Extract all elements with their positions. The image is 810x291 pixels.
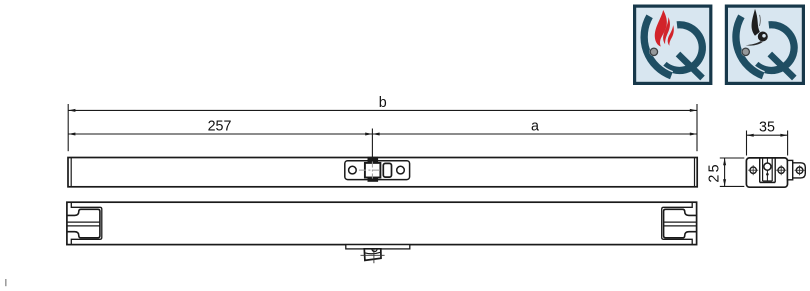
cap plug outline <box>68 209 100 238</box>
icon2 smoke tail <box>746 41 763 46</box>
slider block bottom tab <box>368 177 379 182</box>
dimension line 257 / a <box>68 133 697 135</box>
icon2 Q tail <box>770 54 795 78</box>
icon2 Q ring <box>756 25 794 71</box>
icon1 Q tail <box>678 54 703 78</box>
side tab <box>788 160 793 179</box>
screw hole left <box>750 167 756 173</box>
left end cap line <box>70 158 72 186</box>
svg-text:257: 257 <box>208 119 232 135</box>
pivot center lines <box>361 254 385 256</box>
channel bottom <box>763 180 773 182</box>
dimension line 35 <box>747 134 788 136</box>
plate hole right <box>397 166 405 174</box>
svg-text:a: a <box>531 118 539 134</box>
rail body <box>68 158 697 187</box>
icon1 C arc <box>644 16 671 76</box>
icon1 flame <box>655 10 667 47</box>
ext line 35 right <box>787 131 789 156</box>
icon2 C arc <box>736 16 763 76</box>
pivot notch arc <box>372 249 377 252</box>
center line horizontal <box>359 169 387 171</box>
small rounded rect on plate <box>383 163 391 177</box>
channel outer walls <box>759 158 761 183</box>
rail outline <box>67 202 697 244</box>
icon2 smoke stalk <box>752 9 760 36</box>
dimension line b <box>68 109 697 111</box>
channel inner walls <box>762 158 764 181</box>
right cap (mirror) <box>662 203 696 244</box>
dimension line 25 <box>724 158 726 186</box>
stray gray tick bottom left <box>5 279 7 286</box>
slider block top tab <box>368 157 379 164</box>
icon2 dot <box>741 47 750 56</box>
right end cap line <box>694 158 696 186</box>
icon2 C arc casing <box>736 16 763 76</box>
side clip <box>793 163 806 178</box>
icon2 frame <box>726 6 803 83</box>
icon2 smoke wisp line <box>759 15 762 26</box>
plate hole left <box>349 166 357 174</box>
slider square <box>365 163 381 178</box>
svg-text:25: 25 <box>707 162 723 182</box>
extension line right <box>696 104 698 151</box>
slider plate (bottom view) <box>346 245 410 249</box>
icon1 dot <box>649 47 658 56</box>
cap middle lines <box>68 221 100 223</box>
slider plate <box>345 161 410 180</box>
icon1 frame <box>635 6 711 83</box>
extension/leader line center (to slider square) <box>371 129 373 164</box>
svg-text:b: b <box>379 95 387 111</box>
icon1 Q ring <box>664 25 702 71</box>
icon1 C arc casing <box>644 16 671 76</box>
ext line 25 bottom <box>720 185 745 187</box>
ext line 25 top <box>720 157 745 159</box>
clip hole <box>796 167 803 174</box>
ext line 35 left <box>746 131 748 156</box>
pivot center line <box>766 158 768 163</box>
center line vertical <box>371 162 373 179</box>
side view body <box>746 158 787 187</box>
left cap <box>68 203 102 244</box>
screw hole right <box>778 167 784 173</box>
cap step outline <box>71 203 102 244</box>
extension line left <box>67 104 69 151</box>
svg-text:35: 35 <box>759 120 775 136</box>
pivot hole <box>764 163 771 170</box>
icon2 smoke curl <box>758 32 768 42</box>
pivot block <box>364 249 381 261</box>
